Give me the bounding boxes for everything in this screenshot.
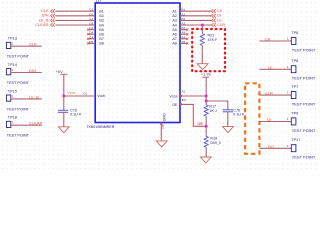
svg-text:D1: D1: [83, 91, 87, 95]
svg-text:TEST POINT: TEST POINT: [292, 156, 316, 160]
wire R21 to ground: [201, 46, 203, 64]
wire OE from U7: [180, 104, 206, 126]
svg-text:A4: A4: [181, 31, 185, 35]
wire CLK to U7: [55, 10, 95, 12]
svg-text:D3: D3: [89, 22, 93, 26]
svg-text:LE_B: LE_B: [29, 94, 39, 99]
pin dot GND: [160, 123, 162, 125]
test point TP15: [6, 89, 41, 111]
pin dot Vcca: [180, 95, 182, 97]
test point TP17: [259, 138, 316, 160]
svg-text:CLR: CLR: [217, 22, 225, 27]
svg-text:Vcca: Vcca: [169, 94, 177, 98]
svg-text:1: 1: [287, 65, 289, 69]
svg-text:DNI_0: DNI_0: [210, 141, 220, 145]
no-connect stub right pin row 5: [180, 29, 186, 31]
test point TP6: [259, 31, 316, 53]
no-connect stub pin row 8: [89, 42, 95, 44]
wire R17 to OE node: [205, 116, 207, 126]
wire GND pin to ground: [160, 123, 162, 141]
svg-text:B3: B3: [99, 19, 103, 23]
node C76 tee junction: [205, 100, 208, 103]
wire +5V down to Vccb node: [63, 74, 65, 96]
svg-text:A2: A2: [172, 14, 176, 18]
svg-text:D4: D4: [89, 31, 93, 35]
U7 left pin names B1-B8: [99, 10, 103, 46]
svg-text:C1: C1: [89, 8, 93, 12]
svg-text:Vccb: Vccb: [67, 91, 75, 95]
svg-text:LE: LE: [268, 65, 273, 70]
wire U7 to LE: [180, 19, 211, 21]
svg-text:A7: A7: [172, 37, 176, 41]
svg-text:A5: A5: [181, 40, 185, 44]
svg-text:TP15: TP15: [8, 89, 17, 93]
off-page connector CLR: [212, 23, 214, 27]
ground below R21: [197, 64, 208, 70]
wire rail down to C76 tee: [205, 96, 207, 101]
svg-text:+5V: +5V: [56, 69, 64, 74]
test point TP13: [6, 37, 41, 59]
test point TP9: [259, 111, 316, 133]
svg-text:1: 1: [287, 144, 289, 148]
svg-text:CK: CK: [265, 37, 271, 42]
U7 left pin numbers: [89, 8, 93, 44]
svg-text:B2: B2: [181, 17, 185, 21]
ground below C76: [223, 127, 234, 133]
svg-text:1: 1: [287, 117, 289, 121]
svg-text:TP9: TP9: [291, 111, 298, 115]
svg-text:C2: C2: [89, 17, 93, 21]
svg-text:A1: A1: [172, 10, 176, 14]
svg-text:B2: B2: [99, 14, 103, 18]
svg-text:CLK: CLK: [29, 42, 37, 47]
svg-text:TP7: TP7: [291, 85, 298, 89]
svg-text:TEST POINT: TEST POINT: [292, 48, 316, 52]
capacitor C78: [58, 109, 68, 111]
svg-text:A2: A2: [181, 12, 185, 16]
svg-text:TEST POINT: TEST POINT: [292, 129, 316, 133]
IC U7 TXB0108 body: [95, 3, 180, 123]
svg-text:A1: A1: [182, 90, 186, 94]
node OE junction: [205, 125, 208, 128]
svg-text:B4: B4: [99, 23, 103, 27]
no-connect stub right pin row 7: [180, 38, 186, 40]
no-connect stub pin row 6: [89, 33, 95, 35]
off-page connector DI: [212, 14, 214, 18]
test point TP8: [259, 59, 316, 81]
svg-text:A4: A4: [172, 23, 176, 27]
no-connect stub right pin row 8: [180, 42, 186, 44]
svg-text:D5: D5: [89, 40, 93, 44]
resistor R21: [200, 34, 204, 46]
capacitor C76: [223, 109, 233, 111]
svg-text:CLR: CLR: [265, 91, 273, 96]
ground below C78: [58, 127, 69, 133]
svg-text:B8: B8: [99, 42, 103, 46]
wire CLR to R21: [201, 25, 203, 34]
svg-text:1: 1: [287, 91, 289, 95]
wire R18 to ground: [205, 147, 207, 157]
wire tee to C76: [206, 101, 228, 110]
wire U7 to DI: [180, 15, 211, 17]
resistor R18: [205, 126, 207, 136]
svg-text:B1: B1: [181, 8, 185, 12]
svg-text:0.1U K: 0.1U K: [233, 113, 245, 117]
svg-text:TP13: TP13: [8, 37, 17, 41]
svg-text:TEST POINT: TEST POINT: [7, 107, 30, 111]
off-page connector LE: [212, 19, 214, 23]
wire C78 to ground: [63, 112, 65, 127]
ground below R18: [200, 157, 211, 163]
wire Vccb node to C78: [63, 96, 65, 110]
svg-text:B1: B1: [99, 10, 103, 14]
svg-text:A5: A5: [172, 28, 176, 32]
svg-text:TEST POINT: TEST POINT: [7, 81, 30, 85]
svg-text:DI: DI: [267, 117, 271, 122]
svg-text:1K J: 1K J: [209, 109, 217, 113]
svg-text:U7: U7: [96, 0, 102, 3]
ground below U7 GND pin: [156, 141, 167, 147]
test point TP14: [6, 63, 41, 85]
svg-text:A6: A6: [172, 33, 176, 37]
node Vcca junction: [205, 95, 208, 98]
wire LE_B to U7: [55, 19, 95, 21]
svg-text:B5: B5: [182, 98, 186, 102]
svg-text:1: 1: [12, 42, 14, 46]
wire U7 to CK: [180, 10, 211, 12]
no-connect stub right pin row 6: [180, 33, 186, 35]
red dotted DNI box: [192, 29, 225, 71]
node CLR junction: [201, 24, 204, 27]
svg-text:TEST POINT: TEST POINT: [7, 134, 30, 138]
svg-text:DO: DO: [268, 144, 274, 149]
svg-text:1: 1: [12, 121, 14, 125]
svg-text:TP6: TP6: [291, 31, 298, 35]
wire +1.8V down to Vcca node: [205, 77, 207, 96]
wire DIN to U7: [55, 15, 95, 17]
wire C76 to ground: [227, 112, 229, 127]
svg-text:B6: B6: [99, 33, 103, 37]
svg-text:CLEAR: CLEAR: [29, 121, 42, 126]
svg-text:0.1U K: 0.1U K: [70, 113, 82, 117]
svg-text:B3: B3: [181, 26, 185, 30]
wire Vcca pin to rail: [180, 95, 206, 97]
off-page connector CK: [212, 9, 214, 13]
svg-text:1: 1: [12, 94, 14, 98]
svg-text:A8: A8: [172, 42, 176, 46]
svg-text:R21: R21: [208, 33, 215, 37]
svg-text:TP18: TP18: [8, 116, 17, 120]
svg-text:A3: A3: [172, 19, 176, 23]
test point TP18: [6, 116, 42, 138]
svg-text:TP17: TP17: [291, 138, 300, 142]
svg-text:A3: A3: [181, 22, 185, 26]
svg-text:TEST POINT: TEST POINT: [7, 55, 30, 59]
svg-text:DIN: DIN: [29, 68, 36, 73]
wire U7 to CLR: [180, 24, 211, 26]
svg-text:D2: D2: [89, 12, 93, 16]
svg-text:Vccb: Vccb: [97, 94, 105, 98]
svg-text:GND: GND: [162, 113, 166, 121]
svg-text:+1.8V: +1.8V: [201, 72, 212, 77]
svg-text:47K F: 47K F: [208, 38, 219, 42]
U7 right pin names A1-A8: [172, 10, 176, 46]
wire Vccb to U7: [64, 95, 95, 97]
svg-text:B4: B4: [181, 35, 185, 39]
svg-text:TXB0108NMRER: TXB0108NMRER: [86, 124, 114, 129]
no-connect stub pin row 7: [89, 38, 95, 40]
svg-text:C4: C4: [89, 35, 93, 39]
svg-text:1: 1: [12, 68, 14, 72]
svg-text:TP14: TP14: [8, 63, 17, 67]
svg-text:C3: C3: [89, 26, 93, 30]
svg-text:TEST POINT: TEST POINT: [292, 77, 316, 81]
pin dot OE: [180, 103, 182, 105]
U7 right pin numbers: [181, 8, 185, 44]
svg-text:B7: B7: [99, 37, 103, 41]
test point TP7: [259, 85, 316, 107]
svg-text:TP8: TP8: [291, 59, 298, 63]
wire CLEAR to U7: [55, 24, 95, 26]
resistor R17: [205, 101, 207, 105]
svg-text:TEST POINT: TEST POINT: [292, 102, 316, 106]
svg-text:B5: B5: [99, 28, 103, 32]
no-connect stub pin row 5: [89, 29, 95, 31]
svg-text:R17: R17: [209, 105, 216, 109]
svg-text:1: 1: [287, 37, 289, 41]
svg-text:OE: OE: [197, 122, 203, 126]
svg-text:OE: OE: [172, 103, 178, 107]
orange dashed highlight box: [245, 83, 259, 154]
svg-text:CLEAR: CLEAR: [35, 22, 48, 27]
